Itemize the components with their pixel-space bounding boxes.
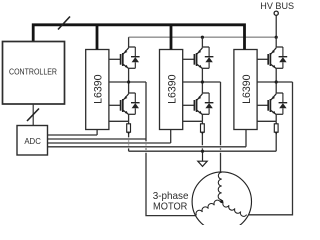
node HV rail / leg-3 collector junction	[275, 36, 278, 39]
wire emitter node (leg 2 high-side)	[202, 67, 209, 69]
node phase junction (leg 1)	[127, 80, 130, 83]
wire ADC sense line 4 (to driver U3)	[50, 145, 244, 148]
svg-text:MOTOR: MOTOR	[153, 202, 187, 213]
motor winding phase V (top)	[218, 172, 222, 200]
wire gate low-side (leg 1)	[109, 104, 121, 106]
wire emitter down-lead (leg 1 low-side)	[128, 114, 130, 121]
node ground-rail junction	[201, 150, 204, 153]
wire emitter node (leg 1 low-side)	[129, 113, 136, 115]
transistor IGBT Q2L	[193, 100, 195, 111]
ground	[202, 151, 204, 161]
transistor IGBT Q3H	[267, 54, 269, 65]
wire control bus from controller to drivers	[33, 25, 244, 50]
transistor IGBT Q1L	[120, 100, 122, 111]
transistor IGBT Q1H	[120, 54, 122, 65]
wire gate high-side (leg 2)	[183, 58, 195, 60]
ADC block	[17, 126, 48, 156]
wire low-side emitter return (leg 1)	[109, 120, 129, 122]
wire emitter node (leg 3 high-side)	[276, 67, 283, 69]
wire emitter down-lead (leg 1 high-side)	[128, 68, 130, 82]
wire collector up-lead (leg 2 high-side)	[201, 37, 203, 48]
wire L6390 feedback pin down to ADC line (leg 3)	[245, 130, 247, 147]
transistor IGBT Q3L	[267, 100, 269, 111]
wire collector node (leg 1 high-side)	[129, 46, 136, 48]
diode freewheel D3H	[282, 47, 284, 57]
wire gate low-side (leg 3)	[257, 104, 268, 106]
diode freewheel D1H	[134, 47, 136, 57]
wire low-side emitter return (leg 2)	[183, 120, 203, 122]
wire gate low-side (leg 2)	[183, 104, 195, 106]
op-amp U1 gate driver L6390 (leg 1)	[86, 50, 109, 130]
wire shunt bottom to ground rail (leg 2)	[201, 133, 203, 151]
motor winding phase U (lower-left)	[196, 200, 220, 215]
wire low-side emitter return (leg 3)	[257, 120, 276, 122]
wire emitter down-lead (leg 3 high-side)	[275, 68, 277, 82]
current-sense arrow (leg 3)	[275, 132, 278, 135]
resistor shunt R1	[127, 124, 131, 132]
node phase junction (leg 2)	[201, 80, 204, 83]
wire ADC sense line 1 (to driver U1)	[50, 133, 95, 136]
wire ADC sense line 2 (phase-U tap)	[50, 137, 144, 140]
wire emitter down-lead (leg 3 low-side)	[275, 114, 277, 121]
transistor IGBT Q2H	[193, 54, 195, 65]
current-sense arrow (leg 1)	[127, 132, 130, 135]
diode freewheel D3L	[282, 93, 284, 103]
svg-text:L6390: L6390	[241, 75, 253, 104]
wire ADC sense line 3 (to driver U2)	[50, 141, 169, 144]
wire collector node (leg 2 high-side)	[202, 46, 209, 48]
HV BUS terminal	[274, 11, 278, 15]
diode freewheel D2H	[208, 47, 210, 57]
wire phase rail (leg 2)	[183, 81, 221, 83]
wire collector up-lead (leg 1 low-side)	[128, 82, 130, 94]
svg-text:3-phase: 3-phase	[153, 191, 189, 202]
wire shunt bottom to ground rail (leg 1)	[128, 133, 130, 151]
wire emitter down-lead (leg 2 high-side)	[201, 68, 203, 82]
svg-text:L6390: L6390	[167, 75, 179, 104]
wire collector node (leg 2 low-side)	[202, 92, 209, 94]
wire ground rail joining shunt resistors	[132, 150, 274, 153]
diode freewheel D1L	[134, 93, 136, 103]
node motor star point	[220, 200, 223, 203]
svg-text:HV BUS: HV BUS	[260, 1, 294, 11]
wire collector up-lead (leg 1 high-side)	[128, 37, 130, 48]
motor winding phase W (lower-right)	[223, 202, 247, 216]
svg-text:ADC: ADC	[24, 136, 41, 146]
svg-text:CONTROLLER: CONTROLLER	[9, 68, 57, 77]
slash mark controller-ADC bus	[27, 109, 39, 122]
wire emitter node (leg 3 low-side)	[276, 113, 283, 115]
wire L6390 feedback pin down to ADC line (leg 2)	[170, 130, 172, 144]
wire controller to ADC	[32, 104, 34, 126]
resistor shunt R2	[201, 124, 205, 132]
wire gate high-side (leg 1)	[109, 58, 121, 60]
wire HV DC rail	[129, 36, 277, 38]
wire emitter down-lead (leg 2 low-side)	[201, 114, 203, 121]
wire L6390 feedback pin down to ADC line (leg 1)	[96, 130, 98, 136]
wire phase rail (leg 3)	[257, 81, 292, 83]
wire collector up-lead (leg 3 low-side)	[275, 82, 277, 94]
svg-text:L6390: L6390	[93, 75, 105, 104]
node phase junction (leg 3)	[275, 80, 278, 83]
bus slash mark	[58, 17, 70, 30]
controller block	[3, 42, 65, 105]
node HV rail / leg-2 collector junction	[201, 36, 204, 39]
motor M1 3-phase stator circle	[192, 172, 251, 231]
wire phase-V output (leg 2) to motor	[220, 82, 222, 176]
wire collector node (leg 3 high-side)	[276, 46, 283, 48]
wire bus drop to U2	[170, 25, 173, 50]
wire bus drop to U1	[96, 25, 99, 50]
wire collector up-lead (leg 2 low-side)	[201, 82, 203, 94]
wire phase rail (leg 1)	[109, 81, 146, 83]
wire collector node (leg 1 low-side)	[129, 92, 136, 94]
wire collector node (leg 3 low-side)	[276, 92, 283, 94]
wire gate high-side (leg 3)	[257, 58, 268, 60]
wire shunt bottom to ground rail (leg 3)	[275, 133, 277, 151]
wire phase-U output (leg 1) to motor	[146, 82, 200, 216]
current-sense arrow (leg 2)	[201, 132, 204, 135]
diode freewheel D2L	[208, 93, 210, 103]
wire phase-W output (leg 3) to motor	[244, 82, 293, 215]
op-amp U2 gate driver L6390 (leg 2)	[160, 50, 183, 130]
op-amp U3 gate driver L6390 (leg 3)	[234, 50, 257, 130]
resistor shunt R3	[274, 124, 278, 132]
wire collector up-lead (leg 3 high-side)	[275, 37, 277, 48]
wire emitter node (leg 1 high-side)	[129, 67, 136, 69]
wire emitter node (leg 2 low-side)	[202, 113, 209, 115]
